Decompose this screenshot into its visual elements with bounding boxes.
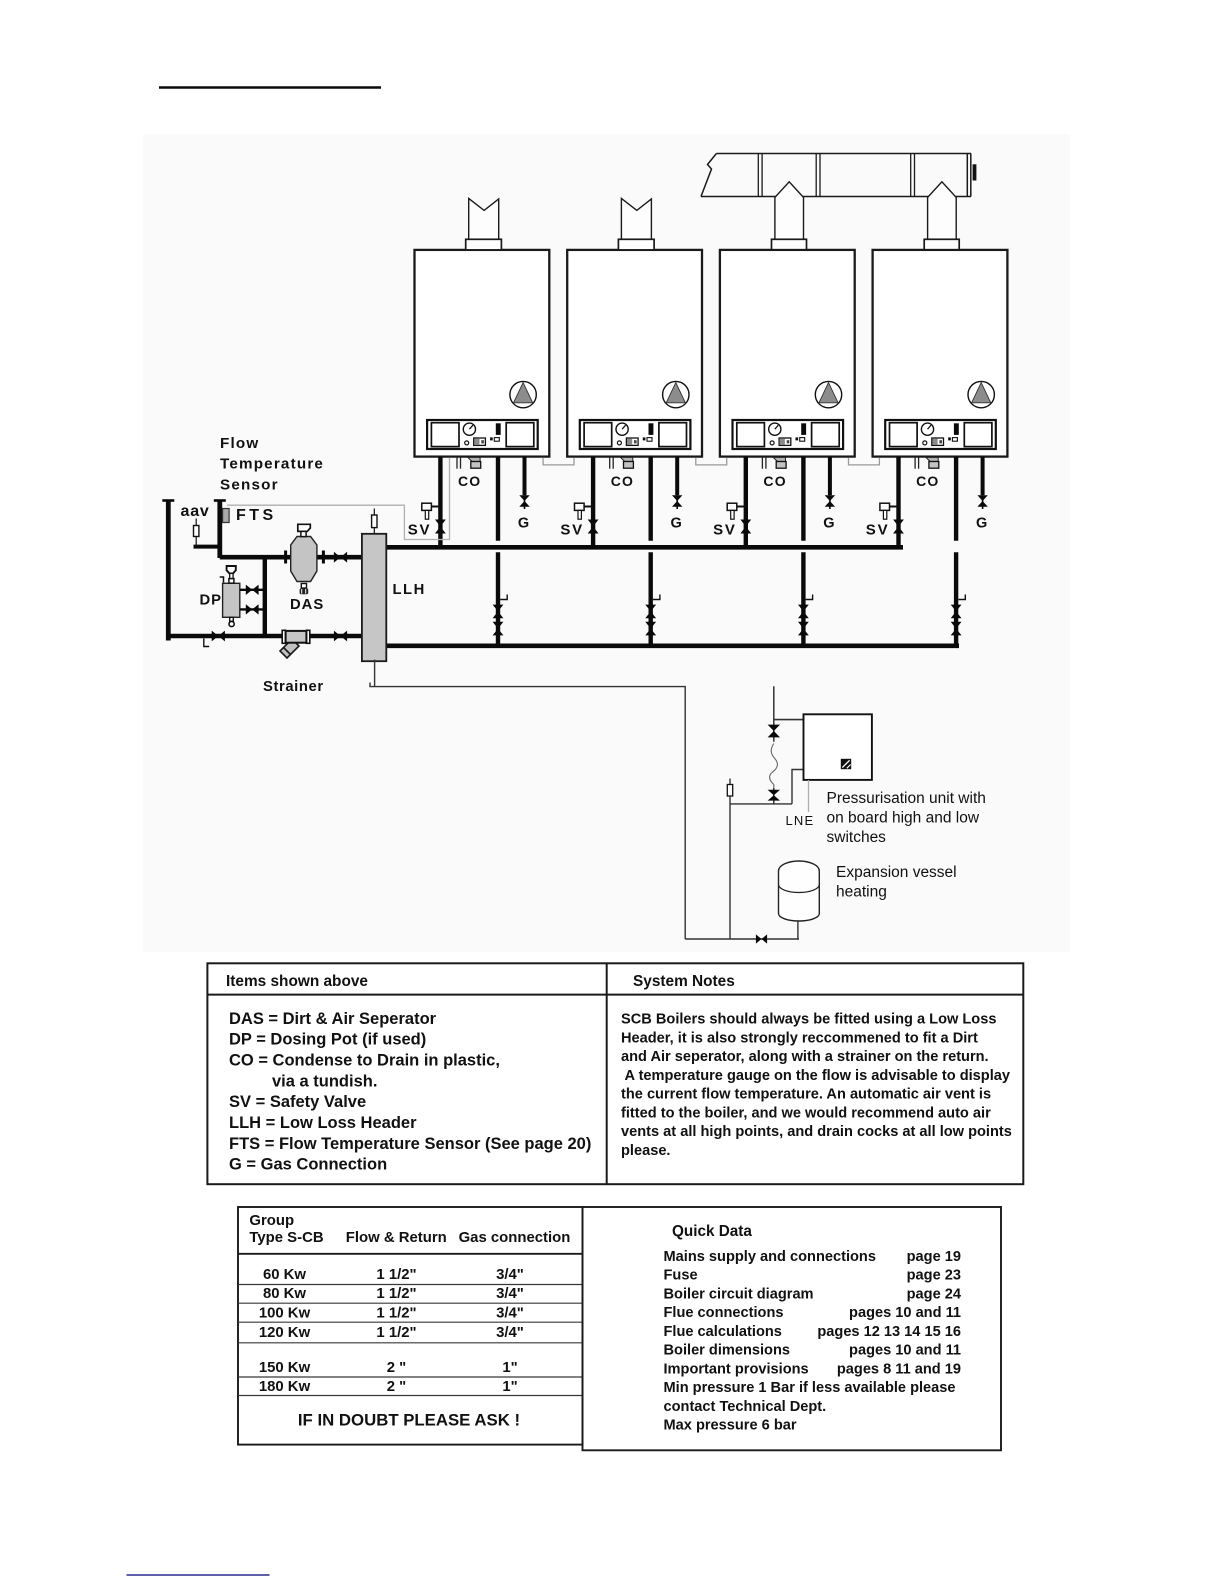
strainer body (286, 631, 307, 643)
boiler B2 open flue terminal (621, 198, 651, 239)
svg-text:A temperature gauge on the flo: A temperature gauge on the flow is advis… (621, 1068, 1011, 1084)
svg-text:LLH: LLH (393, 582, 426, 598)
pressurisation unit icon (841, 759, 851, 769)
svg-text:Quick Data: Quick Data (672, 1223, 752, 1240)
LLH drain stem (374, 660, 376, 687)
low loss header LLH (362, 534, 386, 661)
svg-text:contact Technical Dept.: contact Technical Dept. (664, 1399, 827, 1415)
svg-text:G: G (518, 516, 529, 532)
boiler B2 tundish (621, 457, 633, 461)
svg-text:Boiler circuit diagram: Boiler circuit diagram (664, 1286, 814, 1302)
boiler B3 control panel (733, 420, 844, 449)
svg-text:DAS = Dirt & Air Seperator: DAS = Dirt & Air Seperator (229, 1010, 437, 1028)
svg-text:60 Kw: 60 Kw (263, 1267, 306, 1283)
svg-text:Pressurisation unit with: Pressurisation unit with (827, 790, 986, 807)
svg-text:Flue calculations: Flue calculations (664, 1324, 782, 1340)
strainer leg (280, 639, 299, 658)
boiler B2 gas valve G (672, 495, 682, 501)
return pipe to LLH (166, 634, 363, 639)
return header end bar (166, 500, 171, 641)
boiler B3 flue connection into duct (775, 182, 804, 240)
svg-text:page 19: page 19 (907, 1249, 961, 1265)
boiler B1 gas pipe (523, 457, 527, 496)
svg-text:please.: please. (621, 1143, 671, 1159)
svg-text:1": 1" (502, 1360, 517, 1376)
DP fill funnel (220, 566, 236, 583)
DAS flange right (322, 551, 325, 564)
flexible hose (770, 744, 778, 790)
svg-text:2 ": 2 " (387, 1379, 406, 1395)
quick data box (583, 1207, 1002, 1450)
boiler B2 gas pipe (675, 457, 679, 496)
DP upper valve (240, 589, 265, 591)
svg-text:page 23: page 23 (907, 1268, 961, 1284)
dosing pot DP (223, 583, 240, 617)
dirt and air separator DAS (291, 537, 317, 582)
svg-text:IF IN DOUBT PLEASE ASK !: IF IN DOUBT PLEASE ASK ! (298, 1411, 520, 1430)
boiler B1 safety valve pipe (438, 457, 442, 548)
DAS air vent (298, 524, 311, 536)
svg-text:LLH = Low Loss Header: LLH = Low Loss Header (229, 1114, 417, 1132)
boiler B4 control panel (885, 420, 996, 449)
svg-text:120 Kw: 120 Kw (259, 1325, 311, 1341)
boiler B1 drain cock (500, 595, 507, 600)
return isolation valve left (212, 631, 219, 642)
boiler B2 SV discharge fitting (575, 503, 594, 519)
boiler B2 pump (663, 381, 689, 407)
boiler B4 gas valve G (977, 495, 987, 501)
svg-text:Fuse: Fuse (664, 1268, 698, 1284)
svg-text:FTS = Flow Temperature Sensor: FTS = Flow Temperature Sensor (See page … (229, 1135, 591, 1153)
svg-text:DP: DP (200, 593, 223, 609)
svg-text:switches: switches (827, 829, 887, 846)
boiler B3 safety valve pipe (744, 457, 748, 548)
DP lower valve (240, 608, 265, 610)
svg-text:CO = Condense to Drain in plas: CO = Condense to Drain in plastic, (229, 1052, 500, 1070)
quick data list (664, 1249, 962, 1434)
svg-text:SCB Boilers should always be f: SCB Boilers should always be fitted usin… (621, 1012, 996, 1028)
svg-text:G: G (976, 516, 987, 532)
svg-text:via a tundish.: via a tundish. (272, 1072, 377, 1090)
boiler B1 SV discharge fitting (422, 503, 441, 519)
label Expansion vessel heating (836, 864, 957, 901)
svg-text:CO: CO (611, 473, 634, 489)
svg-text:SV = Safety Valve: SV = Safety Valve (229, 1093, 366, 1111)
DAS drain fitting (301, 584, 306, 589)
boiler B4 flue connection into duct (928, 182, 957, 240)
svg-text:System Notes: System Notes (633, 973, 735, 990)
cold fill line (370, 683, 685, 940)
group type table (238, 1207, 583, 1445)
svg-text:FTS: FTS (236, 507, 277, 524)
flow temperature sensor FTS (223, 509, 230, 523)
boiler B2 flow/return drop pipe (649, 457, 653, 541)
condensate bracket between B1 and B2 (543, 458, 574, 465)
svg-text:Gas connection: Gas connection (459, 1230, 571, 1246)
label Flow Temperature Sensor (220, 435, 324, 494)
label Pressurisation unit (827, 790, 986, 846)
return header (left bar to boilers) (386, 643, 959, 648)
svg-text:CO: CO (458, 473, 481, 489)
svg-text:vents at all high points, and: vents at all high points, and drain cock… (621, 1124, 1012, 1140)
flexible hose line (773, 686, 775, 741)
title underline rule (159, 86, 381, 89)
svg-text:SV: SV (866, 522, 890, 539)
boiler B2 drain cock (653, 595, 660, 600)
svg-text:1 1/2": 1 1/2" (376, 1306, 416, 1322)
svg-text:pages 8 11 and 19: pages 8 11 and 19 (837, 1362, 961, 1378)
hose valve upper (768, 725, 780, 731)
boiler B2 safety valve pipe (591, 457, 595, 548)
horizontal flue duct (701, 154, 971, 197)
boiler B4 flow/return drop pipe (954, 457, 958, 541)
svg-text:pages 10 and 11: pages 10 and 11 (849, 1343, 961, 1359)
boiler B2 condense drain CO (610, 457, 614, 469)
svg-text:G: G (823, 516, 834, 532)
svg-text:Expansion vessel: Expansion vessel (836, 864, 957, 881)
boiler B1 safety valve SV (435, 520, 446, 527)
boiler B1 control panel (427, 420, 538, 449)
LNE leader (808, 780, 810, 812)
boiler B3 pump (815, 381, 841, 407)
svg-text:aav: aav (181, 503, 210, 520)
footer link rule (127, 1574, 270, 1576)
aav branch pipe (194, 545, 222, 549)
expansion bottom line (685, 938, 799, 940)
svg-text:Max pressure 6 bar: Max pressure 6 bar (664, 1418, 797, 1434)
expansion vessel (779, 861, 820, 921)
boiler B3 tundish (773, 457, 785, 461)
boiler B4 tundish (926, 457, 938, 461)
boiler B3 flow/return drop pipe (801, 457, 805, 541)
FTS sensor wire (227, 458, 450, 540)
svg-text:pages 10 and 11: pages 10 and 11 (849, 1305, 961, 1321)
boiler B3 isolation valve lower (798, 622, 809, 629)
table rows (259, 1267, 524, 1395)
svg-text:Items shown above: Items shown above (226, 973, 368, 990)
svg-text:3/4": 3/4" (496, 1267, 524, 1283)
svg-text:100 Kw: 100 Kw (259, 1306, 311, 1322)
flow header (LLH to boilers) (386, 545, 903, 550)
hose to unit connection (774, 719, 804, 721)
pressure relief vent (727, 779, 732, 797)
svg-text:SV: SV (560, 522, 584, 539)
svg-text:SV: SV (713, 522, 737, 539)
svg-text:Min pressure 1 Bar if less ava: Min pressure 1 Bar if less available ple… (664, 1380, 956, 1396)
svg-text:page 24: page 24 (907, 1286, 962, 1302)
svg-text:heating: heating (836, 884, 887, 901)
return isolation valve right (334, 631, 341, 642)
svg-text:1 1/2": 1 1/2" (376, 1325, 416, 1341)
expansion vessel stem (797, 921, 799, 940)
svg-text:1": 1" (502, 1379, 517, 1395)
duct joint 2 (816, 154, 820, 197)
svg-text:DAS: DAS (290, 597, 324, 613)
DAS flange left (284, 551, 287, 564)
hose valve lower (768, 790, 780, 795)
svg-text:3/4": 3/4" (496, 1325, 524, 1341)
svg-text:Temperature: Temperature (220, 456, 324, 473)
duct joint 3 (911, 154, 915, 197)
boiler B1 body (415, 250, 550, 457)
svg-text:Flow & Return: Flow & Return (346, 1230, 447, 1246)
svg-text:Header, it is also strongly re: Header, it is also strongly reccommened … (621, 1031, 978, 1047)
boiler B1 gas valve G (519, 495, 529, 501)
pressurisation unit box (804, 714, 872, 780)
svg-text:150 Kw: 150 Kw (259, 1360, 311, 1376)
condensate bracket between B3 and B4 (849, 458, 880, 465)
boiler B1 pump (510, 381, 536, 407)
svg-text:Flow: Flow (220, 435, 259, 452)
system notes paragraph (621, 1012, 1012, 1159)
boiler B4 isolation valve upper (951, 605, 962, 612)
strainer flange left (282, 630, 285, 643)
svg-text:Important provisions: Important provisions (664, 1362, 809, 1378)
boiler B4 pump (968, 381, 994, 407)
dosing pot branch pipe (263, 557, 267, 636)
items/system notes table (207, 963, 1023, 1184)
boiler B3 drain cock (806, 595, 813, 600)
svg-text:Group: Group (249, 1213, 294, 1229)
svg-text:CO: CO (916, 473, 939, 489)
LLH air vent (372, 509, 377, 535)
boiler B3 body (720, 250, 855, 457)
items legend list (229, 1010, 591, 1174)
boiler B2 safety valve SV (588, 520, 599, 527)
svg-text:3/4": 3/4" (496, 1306, 524, 1322)
svg-text:Flue connections: Flue connections (664, 1305, 784, 1321)
DP drain fitting (230, 617, 234, 621)
boiler B4 body (873, 250, 1008, 457)
svg-text:80 Kw: 80 Kw (263, 1286, 306, 1302)
svg-text:Type S-CB: Type S-CB (249, 1230, 323, 1246)
svg-text:and Air seperator, along with: and Air seperator, along with a strainer… (621, 1049, 989, 1065)
svg-text:1 1/2": 1 1/2" (376, 1267, 416, 1283)
table headers (249, 1213, 570, 1246)
boiler B1 open flue terminal (469, 198, 499, 239)
svg-text:fitted to the boiler, and we w: fitted to the boiler, and we would recom… (621, 1106, 991, 1122)
flow riser pipe (217, 500, 222, 558)
boiler B3 condense drain CO (762, 457, 766, 469)
automatic air vent aav (194, 519, 199, 546)
svg-text:G: G (671, 516, 682, 532)
boiler B4 isolation valve lower (951, 622, 962, 629)
duct joint 1 (758, 154, 762, 197)
boiler B1 isolation valve upper (493, 605, 504, 612)
boiler B1 isolation valve lower (493, 622, 504, 629)
boiler B4 safety valve SV (893, 520, 904, 527)
svg-text:Sensor: Sensor (220, 476, 279, 493)
boiler B4 drain cock (958, 595, 965, 600)
flow isolation valve (334, 552, 341, 563)
boiler B2 body (567, 250, 702, 457)
boiler B3 safety valve SV (740, 520, 751, 527)
flow pipe to LLH (220, 555, 363, 560)
svg-text:LNE: LNE (786, 813, 815, 828)
svg-text:DP = Dosing Pot (if used): DP = Dosing Pot (if used) (229, 1031, 426, 1049)
svg-text:Strainer: Strainer (263, 679, 324, 695)
boiler B2 isolation valve lower (645, 622, 656, 629)
boiler B4 SV discharge fitting (880, 503, 899, 519)
duct end cap (973, 164, 977, 180)
svg-text:pages 12 13 14 15 16: pages 12 13 14 15 16 (817, 1324, 961, 1340)
boiler B3 SV discharge fitting (727, 503, 746, 519)
svg-text:3/4": 3/4" (496, 1286, 524, 1302)
svg-text:on board high and low: on board high and low (827, 810, 980, 827)
boiler B3 gas valve G (825, 495, 835, 501)
boiler B4 condense drain CO (915, 457, 919, 469)
boiler B2 isolation valve upper (645, 605, 656, 612)
svg-text:1 1/2": 1 1/2" (376, 1286, 416, 1302)
boiler B4 gas pipe (981, 457, 985, 496)
svg-text:CO: CO (763, 473, 786, 489)
svg-text:the current flow temperature.: the current flow temperature. An automat… (621, 1087, 991, 1103)
boiler B1 condense drain CO (457, 457, 461, 469)
svg-text:2 ": 2 " (387, 1360, 406, 1376)
boiler B3 gas pipe (828, 457, 832, 496)
pressurisation feed line (729, 796, 731, 939)
svg-text:SV: SV (408, 522, 432, 539)
boiler B4 safety valve pipe (896, 457, 900, 548)
strainer flange right (306, 630, 309, 643)
expansion vessel valve (756, 934, 762, 943)
condensate bracket between B2 and B3 (696, 458, 727, 465)
boiler B3 isolation valve upper (798, 605, 809, 612)
boiler B1 flow/return drop pipe (496, 457, 500, 541)
svg-text:G = Gas Connection: G = Gas Connection (229, 1156, 387, 1174)
boiler B2 control panel (580, 420, 691, 449)
drain cock return (204, 639, 209, 647)
boiler B1 tundish (468, 457, 480, 461)
svg-text:Boiler dimensions: Boiler dimensions (664, 1343, 791, 1359)
svg-text:180 Kw: 180 Kw (259, 1379, 311, 1395)
scanned image light backdrop (144, 135, 1071, 953)
svg-text:Mains supply and connections: Mains supply and connections (664, 1249, 876, 1265)
